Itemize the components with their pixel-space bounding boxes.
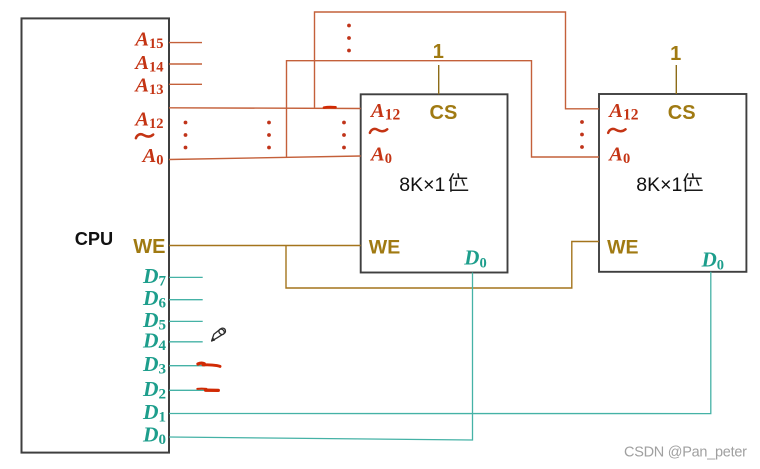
svg-text:1: 1 (670, 43, 681, 65)
svg-text:8K×1: 8K×1 (399, 174, 445, 196)
svg-text:WE: WE (607, 237, 638, 259)
svg-text:CSDN @Pan_peter: CSDN @Pan_peter (624, 444, 747, 460)
svg-text:1: 1 (433, 41, 444, 63)
svg-text:CPU: CPU (75, 229, 113, 249)
svg-text:CS: CS (668, 102, 696, 124)
svg-text:WE: WE (133, 236, 165, 258)
svg-text:CS: CS (430, 102, 458, 124)
svg-text:WE: WE (369, 237, 400, 259)
svg-text:8K×1: 8K×1 (636, 174, 682, 196)
